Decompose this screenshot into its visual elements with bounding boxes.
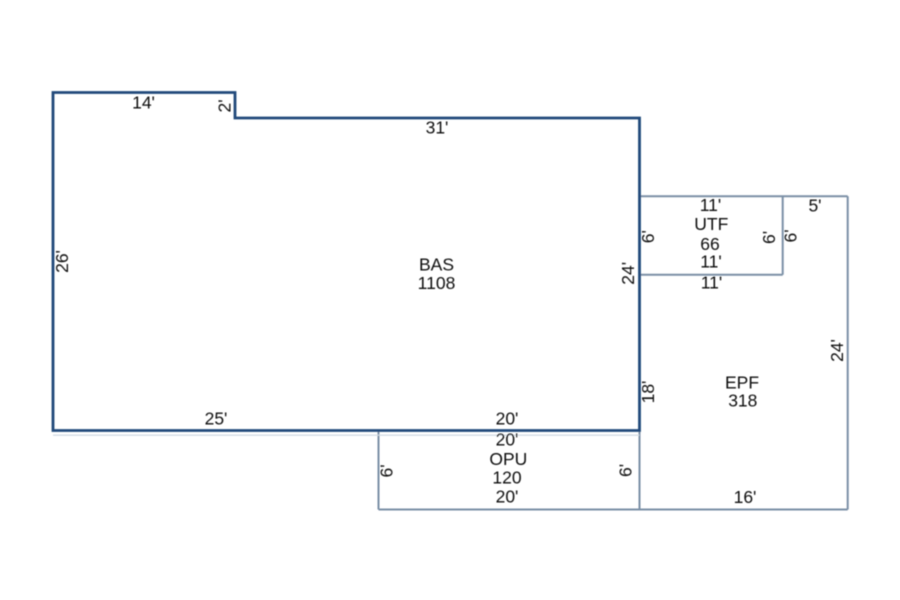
- svg-text:20': 20': [496, 429, 519, 449]
- svg-text:11': 11': [700, 252, 722, 272]
- svg-text:6': 6': [616, 464, 636, 477]
- svg-text:BAS: BAS: [419, 255, 454, 275]
- svg-text:20': 20': [496, 408, 519, 428]
- svg-text:UTF: UTF: [694, 214, 728, 234]
- svg-text:26': 26': [52, 250, 72, 273]
- svg-text:120: 120: [492, 468, 521, 488]
- svg-text:24': 24': [827, 339, 847, 362]
- svg-text:16': 16': [734, 487, 757, 507]
- svg-text:25': 25': [205, 408, 228, 428]
- svg-text:31': 31': [426, 118, 449, 138]
- svg-text:6': 6': [780, 229, 800, 242]
- svg-text:1108: 1108: [418, 273, 456, 293]
- svg-text:318: 318: [728, 391, 757, 411]
- svg-text:2': 2': [215, 99, 235, 112]
- svg-text:5': 5': [808, 196, 821, 216]
- svg-text:11': 11': [701, 272, 723, 292]
- svg-text:24': 24': [618, 262, 638, 285]
- svg-text:OPU: OPU: [489, 449, 527, 469]
- svg-text:11': 11': [700, 195, 722, 215]
- svg-text:6': 6': [377, 464, 397, 477]
- svg-text:14': 14': [132, 93, 155, 113]
- svg-text:6': 6': [638, 230, 658, 243]
- svg-text:18': 18': [638, 381, 658, 404]
- svg-text:6': 6': [759, 231, 779, 244]
- svg-text:20': 20': [496, 486, 519, 506]
